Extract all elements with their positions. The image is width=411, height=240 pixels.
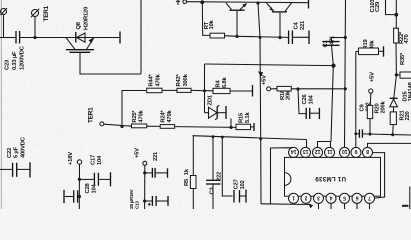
svg-text:H20R120: H20R120 (84, 7, 90, 30)
svg-text:0.33 µF: 0.33 µF (12, 51, 18, 70)
svg-text:104: 104 (92, 183, 98, 193)
svg-text:470k: 470k (156, 73, 162, 86)
junction R35 tap (395, 73, 398, 76)
svg-text:104: 104 (309, 94, 315, 104)
svg-text:9: 9 (355, 148, 358, 154)
pin 6 (352, 193, 362, 203)
svg-text:8: 8 (366, 148, 369, 154)
svg-text:4: 4 (330, 195, 333, 201)
wire: Q8 emitter to right rail (80, 0, 141, 74)
svg-text:13: 13 (303, 148, 309, 154)
svg-text:3: 3 (317, 195, 320, 201)
svg-text:102: 102 (240, 180, 246, 189)
svg-text:U1 LM339: U1 LM339 (315, 175, 346, 182)
wire: pin 8 net (368, 143, 411, 147)
svg-text:300k: 300k (183, 73, 189, 86)
svg-text:R24*: R24* (161, 110, 167, 123)
junction ZD1 tap (229, 126, 232, 129)
wire: R44 feed corner (122, 91, 146, 127)
wire (175, 126, 236, 129)
svg-text:C22: C22 (7, 148, 13, 158)
pin 2 (301, 193, 311, 203)
resistor R44* 470k (147, 73, 162, 92)
svg-text:6.8k: 6.8k (222, 77, 228, 88)
svg-text:12: 12 (315, 148, 321, 154)
svg-text:R25*: R25* (132, 110, 138, 123)
svg-text:ZD1: ZD1 (208, 94, 214, 105)
resistor R15 5.1k (236, 112, 254, 131)
svg-text:220 µF/16V: 220 µF/16V (129, 188, 134, 209)
junction C17 tap (78, 178, 81, 181)
junction R18/pin10 rail (344, 87, 347, 90)
svg-text:470k: 470k (167, 110, 173, 123)
junction R4/vertical (203, 89, 206, 92)
junction C3 tap (212, 135, 215, 138)
svg-text:+5V: +5V (135, 148, 141, 158)
pin 12 (313, 147, 323, 157)
terminal + (top supply) (176, 0, 187, 5)
svg-text:220: 220 (405, 111, 411, 120)
svg-text:Q8: Q8 (76, 21, 82, 29)
resistor R43* 300k (176, 73, 191, 92)
transistor Q8 H20R120 (IGBT with diode) (66, 7, 94, 52)
junction C28 tap (78, 195, 81, 198)
capacitor C1 471 (323, 35, 346, 66)
resistor R20 200k (367, 93, 386, 134)
svg-text:C3: C3 (210, 187, 216, 195)
resistor R35* (396, 52, 411, 78)
capacitor C28 104 (64, 182, 98, 203)
pin 8 (363, 147, 373, 157)
svg-text:222: 222 (217, 172, 223, 181)
svg-text:221: 221 (153, 151, 159, 161)
capacitor C23 (5, 31, 26, 70)
junction R21 bottom (391, 133, 394, 136)
capacitor 221 (145, 151, 168, 178)
wire: left branch of mid rail (204, 64, 206, 113)
junction emitters node (256, 1, 259, 4)
wire: pin 6 stub (356, 203, 358, 209)
svg-text:R43*: R43* (176, 73, 182, 86)
svg-text:R5: R5 (184, 178, 190, 186)
svg-text:14: 14 (291, 148, 297, 154)
pin 3 (314, 193, 324, 203)
resistor R24* 470k (160, 110, 174, 129)
junction TER1/R44 (120, 125, 123, 128)
terminal bar: gate wire end (119, 32, 121, 44)
svg-text:2: 2 (305, 195, 308, 201)
svg-text:C13: C13 (135, 201, 140, 209)
junction mid rail / C1 node (331, 64, 335, 68)
pin 11 (325, 147, 335, 157)
wire (147, 125, 161, 127)
svg-text:C17: C17 (91, 155, 97, 165)
junction C27 tap (221, 136, 224, 139)
svg-text:C27: C27 (234, 179, 240, 189)
svg-text:C26: C26 (302, 93, 308, 104)
label C103 C29 (370, 0, 381, 13)
resistor R21 220 (390, 109, 411, 134)
wire: pin 4 stub (330, 203, 332, 209)
pin 9 (351, 147, 361, 157)
junction output/base wire (259, 36, 262, 39)
svg-text:400VDC: 400VDC (21, 136, 27, 158)
pin 5 (340, 193, 350, 203)
svg-text:C4: C4 (294, 22, 300, 30)
capacitor C9 222 (354, 102, 411, 137)
wire: mid rail y=64 (205, 64, 334, 66)
svg-text:1200VDC: 1200VDC (20, 45, 26, 70)
wire: pin 3 stub (318, 203, 320, 209)
junction 221 cap tap (143, 171, 146, 174)
svg-text:471: 471 (330, 35, 336, 45)
terminal TER1 (bottom) (88, 107, 132, 126)
svg-text:C23: C23 (5, 59, 11, 70)
svg-text:470: 470 (404, 34, 410, 43)
pin 14 (289, 147, 299, 157)
svg-text:5.1k: 5.1k (245, 112, 251, 123)
pin 13 (301, 147, 311, 157)
capacitor C17 104 (79, 155, 110, 186)
resistor R4 6.8k (213, 77, 253, 97)
svg-text:1: 1 (292, 195, 295, 201)
wire: drop to pins 11-12 staple (331, 66, 333, 142)
wire: AC line net y=37.5 (0, 37, 120, 39)
svg-text:C29: C29 (375, 1, 381, 12)
pin 10 (340, 147, 350, 157)
terminal +18V (68, 152, 82, 209)
wire: top rail (187, 2, 308, 3)
zener diode ZD1 (205, 94, 227, 120)
svg-text:+5V: +5V (370, 72, 376, 82)
svg-text:200k: 200k (381, 100, 387, 113)
svg-text:R15: R15 (239, 112, 245, 123)
diode D15 1N4148 (390, 75, 411, 112)
resistor R19 30k (356, 38, 384, 56)
resistor R5 1k (184, 136, 196, 209)
wire: ZD1 tap stub (230, 119, 232, 128)
wire: pin 7 stub (369, 203, 371, 209)
svg-text:R4: R4 (216, 80, 222, 88)
capacitor C22 5uF 400VDC (0, 136, 30, 177)
capacitor C13 220uF/16V (129, 188, 168, 211)
junction C1 top node (344, 36, 347, 39)
resistor R18 20k (277, 86, 345, 100)
pin 7 (365, 193, 375, 203)
svg-text:+18V: +18V (68, 152, 74, 165)
wire: node B rail to IC (193, 136, 307, 148)
arrow on output wire (258, 71, 263, 77)
wire: pin 9 rail (355, 52, 357, 148)
wire: pin 10 rail (long vertical) (345, 0, 346, 147)
svg-text:11: 11 (327, 148, 333, 154)
junction output drop (259, 137, 262, 140)
capacitor C27 102 (222, 137, 246, 202)
terminal +5V (upper right) (369, 72, 376, 93)
terminal top-left corner (1, 8, 8, 38)
svg-text:221: 221 (300, 20, 306, 30)
junction Q1 base (235, 35, 238, 38)
resistor RT 10k (202, 2, 224, 38)
svg-text:TER1: TER1 (88, 107, 95, 123)
wire: C29 branch top right (386, 0, 397, 28)
svg-text:TER1: TER1 (43, 5, 50, 21)
resistor R22* 470 (394, 28, 410, 75)
terminal +5V (bottom left) (135, 148, 147, 209)
junction C26 tap (296, 87, 299, 90)
svg-text:5 µF: 5 µF (14, 146, 20, 158)
wire: pin 8 to pin 7 side link (372, 153, 384, 199)
svg-text:6: 6 (356, 195, 359, 201)
junction TER1/C23 node (33, 36, 36, 39)
pin 1 (289, 193, 299, 203)
capacitor C4 221 (289, 20, 309, 44)
svg-text:10k: 10k (209, 19, 215, 29)
terminal bar top right (308, 0, 310, 9)
wire: pin 14 feed loop (271, 148, 294, 204)
capacitor C3 222 (206, 137, 223, 209)
svg-text:+5V: +5V (262, 75, 268, 85)
junction C29 branch (394, 13, 398, 17)
wire (191, 89, 213, 91)
wire (162, 89, 177, 91)
wire: staple over pins 12-11 (318, 142, 331, 148)
svg-text:7: 7 (368, 195, 371, 201)
arrow at pin 2 (309, 204, 314, 209)
junction RT tap (200, 0, 204, 4)
junction R20 bottom (369, 133, 372, 136)
svg-text:104: 104 (97, 155, 103, 165)
terminal +5V (middle) (262, 75, 278, 91)
svg-text:R35*: R35* (400, 52, 406, 65)
mark bottom right (402, 205, 409, 207)
transistor Q2 (PNP, upper pair right) (267, 3, 292, 38)
wire: base drive net y=37.5 (225, 36, 289, 38)
capacitor C26 104 (298, 89, 319, 119)
junction Q2 base (278, 36, 281, 39)
svg-text:C28: C28 (85, 182, 91, 193)
svg-text:C1: C1 (323, 40, 329, 48)
wire: right edge bottom (409, 187, 411, 210)
op-amp U1 LM339 (285, 157, 381, 196)
junction C13 tap (143, 199, 146, 202)
svg-text:10: 10 (342, 148, 348, 154)
pin 4 (326, 193, 336, 203)
wire: pin 5 stub (344, 203, 346, 209)
svg-text:5: 5 (343, 195, 346, 201)
svg-text:R44*: R44* (149, 73, 155, 86)
resistor R25* 470k (132, 110, 147, 128)
transistor Q1 (NPN, upper pair left) (226, 3, 247, 36)
svg-text:470k: 470k (139, 110, 145, 123)
terminal TER1 (top) (31, 5, 50, 37)
svg-text:1k: 1k (184, 168, 190, 175)
wire: emitters output drop (258, 3, 261, 204)
